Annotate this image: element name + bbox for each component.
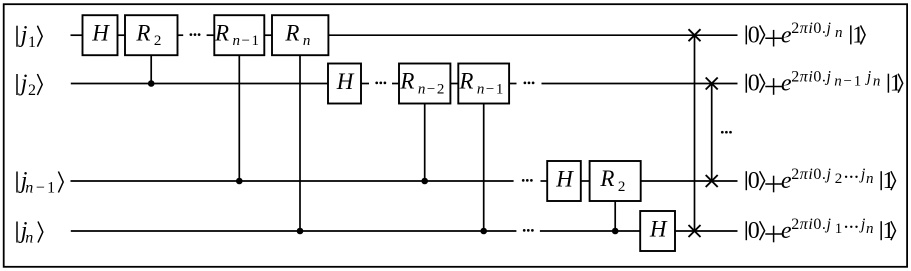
control dot on jn for R2(j(n-1)) [612, 228, 619, 235]
wire jn right segment to output [675, 230, 738, 232]
svg-text:R: R [284, 20, 299, 45]
ellipsis on wire j(n-1) [522, 179, 533, 182]
control line Rn-2(j2) to j(n-1) [424, 104, 426, 182]
wire jn left long segment [71, 230, 517, 232]
gate H on j2 (hadamard) [328, 64, 361, 104]
svg-text:1: 1 [852, 22, 864, 48]
wire j1 Rn-1 to Rn [264, 34, 272, 36]
swap cross on j(n-1) [706, 175, 718, 187]
wire j2 dash before Rn-2 [392, 83, 399, 85]
svg-text:R: R [135, 20, 150, 45]
svg-text:j: j [18, 22, 28, 48]
svg-text:H: H [336, 69, 355, 94]
svg-text:H: H [555, 166, 574, 191]
wire j1 H to R2 [118, 34, 126, 36]
gate H on j(n-1) (hadamard) [547, 161, 581, 201]
qubit input label |jn> [17, 218, 43, 247]
svg-text:2: 2 [154, 33, 162, 49]
svg-text:2πi0.j: 2πi0.j [791, 216, 831, 233]
swap cross on j2 [706, 78, 718, 90]
wire j1 long segment to output [328, 34, 737, 36]
svg-text:1: 1 [883, 168, 895, 194]
wire j1 stub after R2 [178, 34, 184, 36]
svg-text:1: 1 [28, 34, 36, 51]
output label |0>+e^(2 pi i 0.j_n)|1> [746, 20, 865, 48]
wire jn middle segment to H [540, 230, 640, 232]
svg-text:j: j [865, 69, 872, 86]
svg-text:j: j [18, 71, 28, 97]
gate H on jn (hadamard) [640, 211, 675, 251]
svg-text:0: 0 [748, 218, 760, 244]
svg-text:n−1: n−1 [25, 180, 57, 197]
svg-text:2πi0.j: 2πi0.j [791, 166, 831, 183]
svg-text:n: n [303, 33, 311, 49]
wire j(n-1) dash before H [541, 180, 548, 182]
qubit input label |j(n-1)> [17, 168, 63, 197]
svg-text:n: n [835, 25, 843, 41]
control dot on j(n-1) for Rn-1(j1) [236, 178, 243, 185]
output label |0>+e^(2 pi i 0.j_n-1 j_n)|1> [746, 69, 902, 97]
vertical ellipsis between outputs j2 and j(n-1) [721, 131, 732, 134]
control line R2(j(n-1)) to jn [614, 201, 616, 231]
control line Rn-1(j2) to jn [483, 104, 485, 232]
svg-text:0: 0 [748, 168, 760, 194]
ellipsis on wire j1 [190, 33, 201, 36]
swap gate line j1-jn [694, 35, 696, 231]
svg-text:H: H [649, 216, 668, 241]
wire j2 Rn-2 to Rn-1 [450, 83, 458, 85]
svg-text:n: n [866, 221, 874, 237]
svg-text:H: H [91, 21, 110, 46]
swap gate line j2-j(n-1) [711, 84, 713, 182]
gate H on j1 (hadamard) [83, 15, 118, 55]
ellipsis on wire j2 (right) [524, 82, 535, 85]
wire j(n-1) right segment to output [641, 180, 738, 182]
svg-text:1: 1 [883, 218, 895, 244]
svg-text:n: n [25, 230, 33, 247]
wire j(n-1) H to R2 [581, 180, 590, 182]
control line Rn-1(j1) to j(n-1) [238, 55, 240, 181]
qubit input label |j2> [17, 71, 42, 100]
svg-text:2πi0.j: 2πi0.j [791, 69, 831, 86]
output label |0>+e^(2 pi i 0.j_2...j_n)|1> [746, 166, 895, 194]
wire j2 right segment to output [542, 83, 738, 85]
gate Rn-1 on j1 [214, 15, 264, 55]
ellipsis on wire j2 (left) [375, 82, 386, 85]
wire j2 stub after H [361, 83, 369, 85]
control dot on j2 for R2(j1) [148, 80, 155, 87]
control dot on jn for Rn(j1) [297, 228, 304, 235]
control line R2(j1) to j2 [150, 55, 152, 83]
svg-text:j: j [859, 216, 866, 233]
svg-text:0: 0 [748, 22, 760, 48]
svg-text:n−2: n−2 [418, 82, 446, 98]
svg-text:n−1: n−1 [834, 74, 863, 90]
gate R2 on j(n-1) [590, 161, 641, 201]
gate Rn-2 on j2 [399, 64, 450, 104]
control dot on j(n-1) for Rn-2(j2) [421, 178, 428, 185]
control line Rn(j1) to jn [299, 55, 301, 231]
wire j2 stub after Rn-1 [509, 83, 516, 85]
output label |0>+e^(2 pi i 0.j_1...j_n)|1> [746, 216, 895, 244]
wire j1 stub before H [71, 34, 83, 36]
wire j1 dash before Rn-1 [207, 34, 215, 36]
qubit input label |j1> [17, 22, 42, 51]
svg-text:R: R [458, 69, 473, 94]
gate Rn on j1 [272, 15, 328, 55]
swap cross on j1 [689, 29, 701, 41]
wire j2 left long segment [71, 83, 328, 85]
svg-text:2πi0.j: 2πi0.j [791, 20, 831, 37]
svg-text:n: n [873, 74, 881, 90]
svg-text:n−1: n−1 [477, 82, 505, 98]
svg-text:j: j [859, 166, 866, 183]
svg-text:R: R [214, 20, 229, 45]
gate R2 on j1 [125, 15, 178, 55]
control dot on jn for Rn-1(j2) [480, 228, 487, 235]
svg-text:n−1: n−1 [233, 33, 261, 49]
svg-text:n: n [866, 171, 874, 187]
svg-text:0: 0 [748, 71, 760, 97]
ellipsis on wire jn [523, 229, 534, 232]
wire j(n-1) left long segment [71, 180, 514, 182]
svg-text:2: 2 [618, 179, 626, 195]
svg-text:1: 1 [890, 71, 902, 97]
svg-text:1: 1 [835, 221, 843, 237]
svg-text:2: 2 [28, 82, 36, 99]
svg-text:R: R [399, 69, 414, 94]
gate Rn-1 on j2 [458, 64, 509, 104]
svg-text:R: R [599, 166, 614, 191]
swap cross on jn [689, 225, 701, 237]
svg-text:2: 2 [835, 171, 843, 187]
